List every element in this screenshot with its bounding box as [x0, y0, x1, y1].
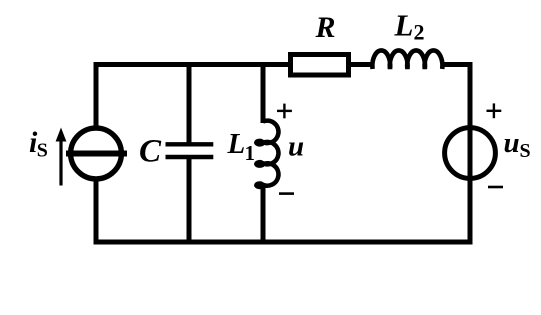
minus sign at uS: [488, 186, 503, 189]
current source iS circle: [71, 128, 122, 179]
svg-text:2: 2: [414, 20, 425, 45]
capacitor C bottom plate: [166, 155, 214, 159]
wire: inductor L1 top lead: [261, 65, 266, 124]
plus sign at uS: [487, 103, 502, 118]
plus sign at L1: [277, 104, 292, 119]
wire: right vertical + bottom wire + left vertical bottom: [96, 65, 470, 243]
resistor R: [291, 55, 349, 76]
wire: top-left corner (left vertical top + top wire to resistor): [96, 65, 290, 130]
minus sign at L1: [279, 192, 294, 195]
svg-text:S: S: [520, 140, 531, 162]
svg-text:L: L: [227, 128, 246, 160]
svg-text:1: 1: [245, 141, 256, 165]
svg-text:u: u: [288, 131, 304, 163]
svg-text:S: S: [37, 140, 48, 162]
voltage source uS circle: [445, 128, 496, 179]
svg-text:u: u: [504, 127, 520, 159]
svg-text:L: L: [394, 8, 414, 43]
inductor L2: [372, 50, 442, 69]
arrow for iS (shaft): [59, 140, 62, 186]
current source iS bar: [66, 151, 127, 157]
arrow for iS (head): [56, 128, 67, 142]
svg-text:C: C: [139, 134, 162, 170]
wire: capacitor bottom lead: [187, 158, 192, 242]
inductor L1: [256, 121, 278, 187]
svg-text:R: R: [315, 11, 336, 44]
wire: capacitor top lead: [187, 65, 192, 144]
wire: inductor L1 bottom lead: [261, 184, 266, 242]
capacitor C top plate: [166, 142, 214, 146]
wire: resistor right lead: [349, 62, 373, 67]
